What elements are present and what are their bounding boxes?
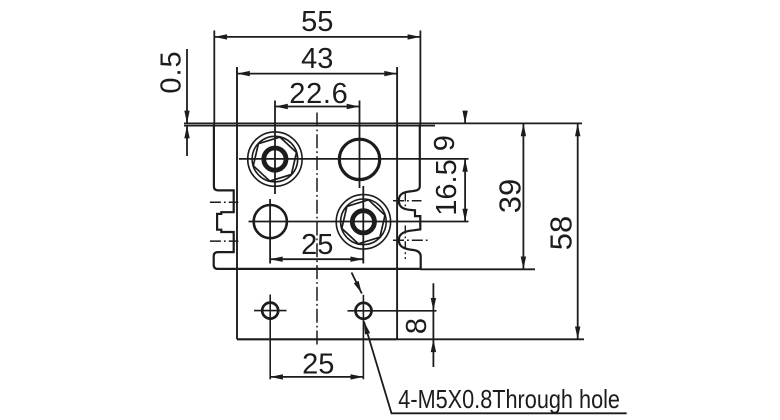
dimension 39 line [522,123,524,269]
dimension 8 lower arrow [432,339,434,367]
svg-text:22.6: 22.6 [289,78,348,110]
mounting hole left [262,303,278,319]
svg-text:0.5: 0.5 [155,50,187,93]
dimension 16.5 line [464,159,466,222]
mounting hole right vertical crosshair / 25 extension [362,295,364,380]
port P4 inner thick ring [352,211,374,233]
thin plate lower line B (body top edge) [184,125,435,127]
dimension 25 bottom line [270,376,363,378]
port P1 top-left outer ring [248,132,302,186]
port P4 bottom-right outer ring [336,195,390,249]
svg-text:4-M5X0.8Through hole: 4-M5X0.8Through hole [398,384,620,414]
svg-text:16.5: 16.5 [431,159,463,215]
dimension 0.5 lower arrow [186,126,188,156]
svg-text:25: 25 [302,349,334,381]
thin plate top line A (0.5 plate top) [184,122,582,124]
dimension 55 left extension [213,31,215,125]
right body feature line x=397 (43 width edge, runs into flange right edge) [396,67,398,339]
dimension 55 right extension [419,31,421,125]
svg-text:39: 39 [493,179,528,213]
port P3 vertical centerline / 25 left extension [269,199,271,264]
port P1 inner thick ring [264,148,286,170]
port row 1 horizontal centerline / extension for 9 [239,158,469,160]
port P1 vertical centerline / 22.6 left extension [274,101,276,195]
right bump 2 centerline [393,239,429,241]
dimension 8 upper arrow [432,283,434,311]
mounting hole left horizontal crosshair [254,310,287,312]
vertical center axis dash-dot [316,113,318,348]
right dims: 9 top arrow [464,111,466,123]
svg-text:8: 8 [401,318,433,334]
body outline right profile [399,125,421,269]
mounting hole right [356,303,372,319]
port P1 hexagon [253,137,296,181]
port P2 top-right circle [339,139,379,179]
dimension 58 line [577,123,579,339]
dimension 0.5 upper arrow [186,49,188,123]
leader upper segment to hole [352,273,362,294]
left body feature line x=237 (43 width edge, runs into flange left edge) [236,67,238,339]
right bump 2 vertical centerline [404,226,406,260]
svg-text:43: 43 [301,43,333,75]
right bump 1 centerline [393,200,422,202]
dimension 43 line [237,73,397,75]
port P3 bottom-left circle [254,205,287,238]
port P2 vertical centerline / 22.6 right extension [359,101,361,189]
mounting hole left vertical crosshair / 25 extension [269,295,271,380]
dimension 22.6 line [275,106,360,108]
flange bottom edge + 58 bottom extension [237,338,397,340]
port P1 second ring [252,136,298,182]
dimension 8 line [432,311,434,340]
mounting hole right horizontal crosshair / 8 extension [348,310,437,312]
svg-text:55: 55 [301,6,333,38]
svg-text:9: 9 [429,135,461,151]
port P4 hexagon [342,200,385,244]
left notch 1 centerline [210,201,239,203]
port P4 second ring [341,199,387,245]
dimension 25 inner line [270,258,363,260]
leader lower segment from hole to text [364,322,627,414]
body bottom right extension for 39 [421,268,536,270]
body outline left profile and bottom edge [214,125,421,269]
left notch 2 centerline [210,240,239,242]
svg-text:58: 58 [544,216,579,250]
port P4 vertical centerline / 25 right extension [362,186,364,264]
dimension 55 line [214,36,420,38]
port row 2 horizontal centerline / extension for 16.5 [249,221,469,223]
right bump 1 vertical centerline [404,194,406,210]
